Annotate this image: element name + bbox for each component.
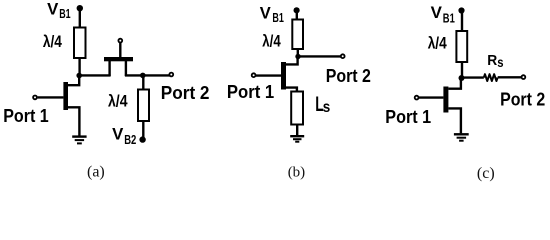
- svg-text:s: s: [497, 54, 503, 70]
- svg-text:(c): (c): [477, 165, 495, 182]
- svg-text:B1: B1: [443, 10, 455, 25]
- svg-text:V: V: [260, 4, 271, 22]
- svg-text:B2: B2: [124, 132, 136, 147]
- svg-text:λ/4: λ/4: [262, 32, 281, 51]
- svg-text:Port 2: Port 2: [326, 65, 371, 86]
- svg-text:Port 1: Port 1: [385, 106, 431, 127]
- svg-text:V: V: [47, 1, 58, 19]
- svg-text:λ/4: λ/4: [43, 32, 62, 51]
- svg-text:Port 2: Port 2: [500, 88, 545, 109]
- svg-text:V: V: [431, 4, 442, 22]
- svg-text:Port 2: Port 2: [161, 82, 210, 103]
- svg-text:Port 1: Port 1: [3, 105, 49, 126]
- svg-text:Port 1: Port 1: [227, 81, 274, 102]
- svg-text:B1: B1: [272, 10, 284, 25]
- svg-text:s: s: [323, 99, 331, 116]
- svg-text:λ/4: λ/4: [428, 34, 447, 53]
- svg-text:(b): (b): [288, 165, 306, 181]
- svg-text:R: R: [487, 52, 497, 69]
- svg-text:V: V: [112, 126, 123, 144]
- svg-text:B1: B1: [59, 6, 70, 21]
- svg-text:λ/4: λ/4: [108, 91, 128, 110]
- svg-text:(a): (a): [87, 164, 105, 181]
